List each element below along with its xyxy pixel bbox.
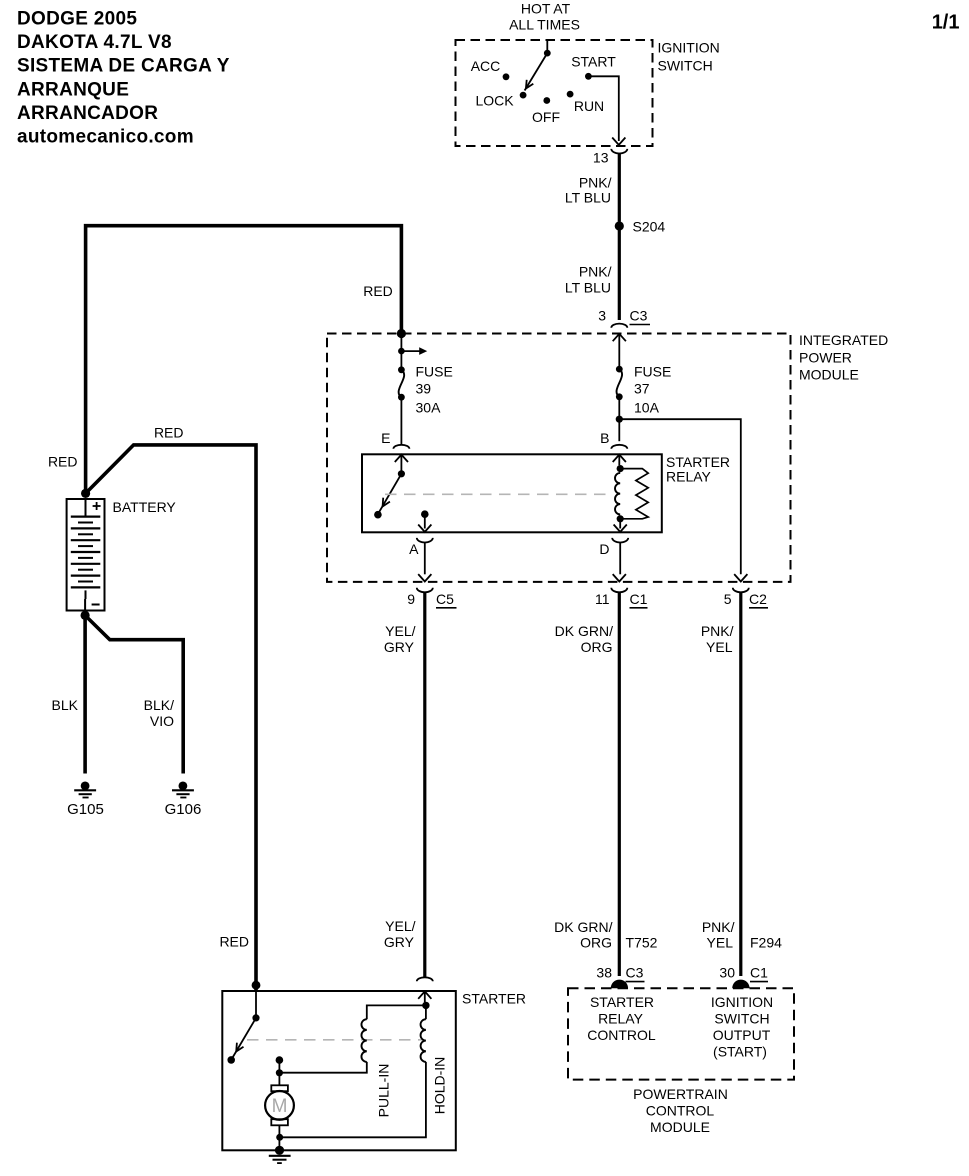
wire A contact down xyxy=(424,514,426,528)
svg-text:BLK/: BLK/ xyxy=(144,697,174,713)
svg-text:INTEGRATED: INTEGRATED xyxy=(799,332,888,348)
svg-text:DK GRN/: DK GRN/ xyxy=(554,919,612,935)
svg-text:MODULE: MODULE xyxy=(650,1119,710,1135)
fuse F39 bottom node xyxy=(398,394,405,401)
svg-text:YEL: YEL xyxy=(707,935,734,951)
svg-text:SISTEMA DE CARGA Y: SISTEMA DE CARGA Y xyxy=(17,56,230,77)
svg-text:11: 11 xyxy=(595,591,610,607)
connector B cap xyxy=(611,445,627,449)
fuse F37 top node xyxy=(616,366,623,373)
wire blk/vio to G106 xyxy=(85,615,183,773)
svg-text:30: 30 xyxy=(719,965,735,981)
svg-text:RED: RED xyxy=(48,454,78,470)
svg-text:YEL: YEL xyxy=(706,639,733,655)
svg-text:FUSE: FUSE xyxy=(416,363,453,379)
arrow relay A xyxy=(418,525,431,532)
wire pnk/yel xyxy=(739,592,742,976)
motor ground junction xyxy=(276,1134,283,1141)
starter NO contact xyxy=(227,1056,235,1064)
svg-text:S204: S204 xyxy=(633,219,666,235)
relay switch arm xyxy=(379,474,402,513)
arrow into IPM pin3 xyxy=(613,334,626,341)
wire red diag to starter xyxy=(86,445,256,985)
connector C5 cup xyxy=(417,588,433,593)
node ACC xyxy=(503,73,510,80)
svg-text:PNK/: PNK/ xyxy=(579,264,612,280)
starter switch arm xyxy=(232,1018,256,1058)
junction fuse37/C2 branch xyxy=(616,416,623,423)
wire red battery to IPM xyxy=(86,226,402,495)
svg-text:G105: G105 xyxy=(67,801,104,818)
wire hold-in return xyxy=(279,1062,426,1137)
svg-text:VIO: VIO xyxy=(150,713,174,729)
wire into solenoid junction xyxy=(424,991,426,1002)
svg-text:RED: RED xyxy=(219,933,249,949)
svg-text:C1: C1 xyxy=(630,591,648,607)
svg-text:STARTER: STARTER xyxy=(462,991,526,1007)
svg-text:SWITCH: SWITCH xyxy=(658,58,713,74)
wire START to pin 13 xyxy=(588,76,618,141)
wire pnk/lt blu lower xyxy=(618,230,621,320)
svg-text:DAKOTA 4.7L V8: DAKOTA 4.7L V8 xyxy=(17,32,172,53)
wire junction to B xyxy=(618,419,620,441)
motor M1 top brush xyxy=(271,1085,288,1091)
battery bottom stub xyxy=(84,599,86,615)
connector C2 cup xyxy=(733,588,749,593)
wire stem to solenoid switch xyxy=(255,991,257,1015)
svg-text:POWERTRAIN: POWERTRAIN xyxy=(633,1086,728,1102)
wire coil to D xyxy=(619,519,621,529)
svg-text:IGNITION: IGNITION xyxy=(658,40,720,56)
connector dome pin30 xyxy=(732,980,749,989)
svg-text:HOLD-IN: HOLD-IN xyxy=(432,1057,448,1115)
svg-text:M: M xyxy=(272,1096,288,1117)
svg-text:GRY: GRY xyxy=(384,934,415,950)
wire yel/gry lower xyxy=(423,756,426,977)
svg-text:(START): (START) xyxy=(713,1044,767,1060)
svg-text:DK GRN/: DK GRN/ xyxy=(555,623,613,639)
pull-in coil xyxy=(361,1019,366,1062)
wire relay E to pivot xyxy=(400,455,402,471)
node tap xyxy=(398,348,405,355)
node RUN xyxy=(567,91,574,98)
svg-text:ARRANQUE: ARRANQUE xyxy=(17,79,129,100)
svg-text:D: D xyxy=(599,541,609,557)
junction red at IPM xyxy=(397,329,406,338)
switch arm with arrow xyxy=(525,53,548,90)
starter switch pivot xyxy=(252,1014,259,1021)
node START xyxy=(585,73,592,80)
connector A cup xyxy=(417,538,433,543)
wire to tap xyxy=(400,334,402,349)
svg-text:FUSE: FUSE xyxy=(634,363,671,379)
svg-text:30A: 30A xyxy=(416,400,442,416)
node ignition pivot xyxy=(544,50,551,57)
svg-text:CONTROL: CONTROL xyxy=(587,1027,656,1043)
wire dk grn/org xyxy=(618,592,621,976)
wire to fuse 37 xyxy=(618,334,620,366)
wire blk to G105 xyxy=(83,615,87,773)
fuse F39 top node xyxy=(398,366,405,373)
svg-text:YEL/: YEL/ xyxy=(385,918,415,934)
node OFF xyxy=(543,97,550,104)
svg-text:13: 13 xyxy=(593,150,609,166)
svg-text:CONTROL: CONTROL xyxy=(646,1102,715,1118)
svg-text:RED: RED xyxy=(154,424,184,440)
svg-text:39: 39 xyxy=(416,381,432,397)
svg-text:ORG: ORG xyxy=(581,639,613,655)
wire tap to fuse 39 xyxy=(400,354,402,367)
connector 13 cup xyxy=(611,149,627,154)
connector C3 cap xyxy=(611,324,627,328)
svg-text:37: 37 xyxy=(634,381,650,397)
connector C1 cup xyxy=(611,588,627,593)
svg-text:PNK/: PNK/ xyxy=(701,623,734,639)
svg-text:ACC: ACC xyxy=(471,58,501,74)
svg-text:C3: C3 xyxy=(630,308,648,324)
svg-text:T752: T752 xyxy=(626,935,658,951)
wire motor to ground node xyxy=(278,1125,280,1150)
hold-in coil feed xyxy=(425,1005,427,1019)
svg-text:BATTERY: BATTERY xyxy=(113,499,177,515)
battery cells xyxy=(85,499,87,517)
ignition switch box xyxy=(456,40,653,146)
svg-text:BLK: BLK xyxy=(52,697,79,713)
svg-text:automecanico.com: automecanico.com xyxy=(17,126,194,147)
wire pull-in return xyxy=(279,1062,366,1073)
fuse F37 element xyxy=(617,369,623,397)
motor feed junction xyxy=(276,1069,283,1076)
svg-text:RELAY: RELAY xyxy=(666,469,712,485)
svg-text:RELAY: RELAY xyxy=(598,1010,644,1026)
ground G106 xyxy=(179,782,188,791)
fuse F37 bottom node xyxy=(616,393,623,400)
relay resistor xyxy=(620,469,648,519)
svg-text:STARTER: STARTER xyxy=(666,454,730,470)
connector D cup xyxy=(612,538,628,543)
connector dome pin38 xyxy=(611,980,628,989)
relay link dashed xyxy=(385,493,606,495)
wire pnk/lt blu upper xyxy=(618,153,621,222)
starter box xyxy=(222,991,455,1150)
junction red at starter xyxy=(252,981,261,990)
starter ground symbol xyxy=(269,1155,291,1157)
relay coil xyxy=(615,473,620,515)
fuse F39 element xyxy=(399,370,405,397)
svg-text:9: 9 xyxy=(407,591,415,607)
svg-text:B: B xyxy=(600,430,609,446)
svg-text:5: 5 xyxy=(724,591,732,607)
wire A to C5 xyxy=(424,542,426,574)
svg-text:IGNITION: IGNITION xyxy=(711,994,773,1010)
svg-text:START: START xyxy=(571,54,616,70)
svg-text:OFF: OFF xyxy=(532,109,560,125)
battery B1 box xyxy=(67,499,105,611)
wire branch to C2 xyxy=(619,419,741,574)
svg-text:HOT AT: HOT AT xyxy=(521,1,571,17)
node LOCK xyxy=(520,92,527,99)
svg-text:ARRANCADOR: ARRANCADOR xyxy=(17,103,158,124)
integrated power module box xyxy=(327,334,791,582)
svg-text:G106: G106 xyxy=(165,801,202,818)
wire fuse 37 to junction xyxy=(618,399,620,416)
wire fuse 39 to E xyxy=(400,400,402,445)
svg-text:PNK/: PNK/ xyxy=(702,919,735,935)
powertrain control module box xyxy=(568,988,794,1079)
arrow into relay E xyxy=(395,455,408,462)
svg-text:E: E xyxy=(381,430,390,446)
arrow at C5 xyxy=(418,574,431,581)
wire red into starter xyxy=(254,985,258,991)
svg-text:DODGE 2005: DODGE 2005 xyxy=(17,9,137,30)
relay NO contact xyxy=(374,511,382,519)
svg-text:38: 38 xyxy=(596,965,612,981)
solenoid feed junction xyxy=(422,1002,429,1009)
svg-text:LT BLU: LT BLU xyxy=(565,190,611,206)
svg-text:F294: F294 xyxy=(750,935,782,951)
svg-text:OUTPUT: OUTPUT xyxy=(713,1027,771,1043)
svg-text:C5: C5 xyxy=(436,591,454,607)
wire contact to motor xyxy=(278,1060,280,1085)
svg-text:SWITCH: SWITCH xyxy=(714,1010,769,1026)
battery minus junction xyxy=(81,611,90,620)
arrow tap to other circuits xyxy=(401,350,419,352)
svg-text:C3: C3 xyxy=(626,965,644,981)
splice S204 xyxy=(615,221,624,230)
motor M1 body xyxy=(265,1091,294,1120)
ground G105 xyxy=(81,782,90,791)
svg-text:STARTER: STARTER xyxy=(590,994,654,1010)
starter case ground node xyxy=(275,1146,284,1155)
svg-text:10A: 10A xyxy=(634,400,660,416)
svg-text:ALL TIMES: ALL TIMES xyxy=(509,17,580,33)
connector E cap xyxy=(393,445,409,449)
relay switch pivot xyxy=(398,470,405,477)
relay contact A node xyxy=(421,510,429,518)
svg-text:C2: C2 xyxy=(749,591,767,607)
svg-text:PNK/: PNK/ xyxy=(579,175,612,191)
svg-text:GRY: GRY xyxy=(384,639,415,655)
svg-text:POWER: POWER xyxy=(799,349,852,365)
starter relay box xyxy=(362,454,662,532)
starter link dashed xyxy=(247,1039,422,1041)
svg-text:C1: C1 xyxy=(750,965,768,981)
wire relay B to coil xyxy=(618,455,620,466)
relay coil bottom node xyxy=(617,515,624,522)
wire D to C1 xyxy=(619,542,621,574)
starter motor contact xyxy=(276,1056,284,1064)
motor M1 bottom brush xyxy=(271,1119,288,1125)
battery minus sign xyxy=(92,604,100,606)
svg-text:PULL-IN: PULL-IN xyxy=(376,1064,392,1118)
svg-text:LT BLU: LT BLU xyxy=(565,280,611,296)
arrow into starter xyxy=(418,991,431,998)
svg-text:YEL/: YEL/ xyxy=(385,623,415,639)
svg-text:RED: RED xyxy=(363,283,393,299)
battery plus junction xyxy=(81,489,90,498)
wire yel/gry upper xyxy=(423,592,426,756)
svg-text:1/1: 1/1 xyxy=(932,12,960,34)
connector starter cap xyxy=(417,977,433,981)
arrow relay D xyxy=(614,525,627,532)
svg-text:RUN: RUN xyxy=(574,98,604,114)
svg-text:3: 3 xyxy=(598,308,606,324)
svg-text:A: A xyxy=(409,541,419,557)
wire ignition feed xyxy=(546,40,548,53)
wire to pull-in coil xyxy=(367,1005,426,1019)
svg-text:MODULE: MODULE xyxy=(799,367,859,383)
battery plus sign xyxy=(93,505,101,507)
svg-text:ORG: ORG xyxy=(580,935,612,951)
relay coil top node xyxy=(617,465,624,472)
hold-in coil xyxy=(421,1019,426,1062)
arrow at C1 xyxy=(613,574,626,581)
arrow into connector 13 xyxy=(612,138,625,145)
arrow at C2 xyxy=(734,574,747,581)
svg-text:LOCK: LOCK xyxy=(475,93,514,109)
arrow into relay B xyxy=(613,455,626,462)
